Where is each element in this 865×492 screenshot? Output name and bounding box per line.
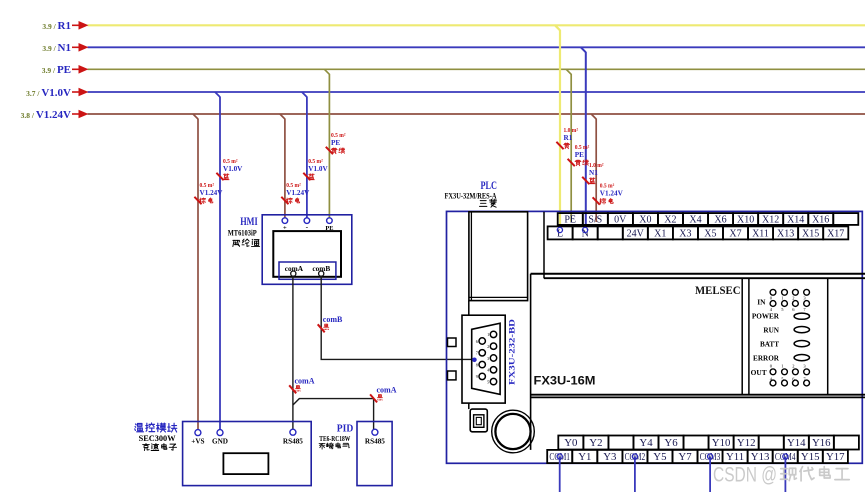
node 3.9/R1 label and source arrow — [42, 20, 88, 32]
PLC main body top edge — [531, 274, 865, 278]
terminal N — [573, 226, 598, 239]
terminal L — [548, 226, 573, 239]
svg-text:POWER: POWER — [752, 313, 780, 321]
svg-text:OUT: OUT — [751, 368, 767, 377]
terminal X11 — [748, 226, 773, 239]
svg-text:X16: X16 — [812, 214, 829, 225]
label comA on wire to PID — [370, 386, 397, 403]
svg-text:GND: GND — [212, 438, 228, 446]
svg-text:+: + — [283, 225, 287, 232]
terminal X4 — [683, 213, 708, 225]
HMI terminal + — [282, 218, 288, 232]
HMI U2 outer box — [262, 215, 352, 284]
node 3.9/N1 label and source arrow — [42, 42, 88, 54]
terminal X7 — [723, 226, 748, 239]
svg-text:Y2: Y2 — [589, 437, 602, 449]
wire R1 bus — [88, 24, 865, 26]
PID vendor — [319, 443, 349, 449]
HMI comB terminal — [319, 271, 324, 276]
LED panel separators — [742, 278, 828, 394]
terminal X3 — [673, 226, 698, 239]
svg-text:X13: X13 — [777, 228, 794, 239]
wire N1 tap to PLC N terminal — [581, 47, 586, 228]
svg-text:comB: comB — [323, 315, 343, 324]
label 0.5mm2 V1.24V brown on +VS drop — [194, 183, 223, 204]
svg-text:2: 2 — [792, 363, 794, 368]
wire PE tap to PLC PE terminal — [566, 69, 571, 222]
terminal COM2 — [622, 450, 647, 463]
wire V1.24V bus — [88, 113, 865, 115]
label 0.5mm2 PE yellow-green on PLC PE drop — [568, 145, 590, 166]
wire from COM2 down — [632, 454, 637, 492]
PLC main body bottom edge — [531, 395, 865, 398]
DB9 pins left column — [476, 338, 486, 380]
svg-text:PE: PE — [575, 151, 584, 159]
terminal Y14 — [784, 436, 809, 450]
terminal Y15 — [798, 450, 823, 463]
svg-text:RUN: RUN — [763, 327, 779, 335]
label comB on wire to PLC — [318, 315, 343, 332]
wire R1 tap to PLC L terminal — [555, 25, 560, 228]
svg-text:FX3U-232-BD: FX3U-232-BD — [507, 319, 517, 385]
svg-text:Y4: Y4 — [639, 437, 653, 449]
svg-text:CSDN @: CSDN @ — [713, 463, 777, 487]
svg-text:Y13: Y13 — [751, 451, 770, 463]
svg-text:Y17: Y17 — [826, 451, 845, 463]
svg-text:PLC: PLC — [481, 180, 498, 192]
terminal blank — [833, 213, 858, 225]
svg-text:X1: X1 — [654, 228, 666, 239]
terminal COM1 — [547, 450, 572, 463]
svg-text:2: 2 — [792, 296, 794, 301]
HMI terminal - — [304, 218, 310, 231]
svg-text:X17: X17 — [827, 228, 844, 239]
terminal X1 — [648, 226, 673, 239]
svg-text:Y0: Y0 — [564, 437, 577, 449]
svg-text:X11: X11 — [752, 228, 769, 239]
svg-text:ERROR: ERROR — [753, 354, 780, 362]
temperature control module box — [183, 422, 312, 486]
svg-text:Y10: Y10 — [712, 437, 731, 449]
terminal X13 — [773, 226, 798, 239]
HMI terminal PE — [325, 218, 333, 232]
svg-text:N1: N1 — [589, 169, 598, 177]
HMI com port section box — [279, 262, 336, 279]
run-stop switch — [470, 409, 487, 432]
label 1.0mm2 R1 yellow on PLC L drop — [556, 128, 578, 149]
terminal COM3 — [698, 450, 723, 463]
HMI vendor weinview — [233, 239, 260, 246]
PLC model FX3U-32M/RES-A — [445, 191, 497, 200]
svg-text:2: 2 — [487, 344, 489, 349]
terminal Y0 — [558, 436, 583, 450]
terminal blank — [598, 226, 623, 239]
wire comB from HMI comB to PLC 232 port — [321, 276, 474, 359]
svg-text:MELSEC: MELSEC — [695, 283, 741, 297]
connector links to body — [468, 301, 470, 410]
label comA on wire to temperature module — [289, 377, 315, 394]
svg-text:X12: X12 — [762, 214, 779, 225]
terminal X14 — [783, 213, 808, 225]
terminal +VS — [191, 430, 204, 446]
terminal Y12 — [734, 436, 759, 450]
HMI model MT6103iP — [228, 229, 257, 238]
terminal blank — [759, 436, 784, 450]
terminal COM4 — [773, 450, 798, 463]
terminal Y2 — [583, 436, 608, 450]
terminal X5 — [698, 226, 723, 239]
PLC vendor Mitsubishi — [480, 199, 497, 207]
wire comA branch to PID RS485 — [293, 399, 374, 430]
terminal Y4 — [633, 436, 658, 450]
svg-text:3.7 / V1.0V: 3.7 / V1.0V — [26, 87, 71, 99]
svg-text:X5: X5 — [704, 228, 716, 239]
svg-text:1: 1 — [487, 332, 489, 337]
temperature module vendor — [143, 443, 177, 450]
wire from COM4 down — [783, 454, 788, 492]
wire from COM3 down — [708, 454, 713, 492]
svg-text:0V: 0V — [614, 214, 627, 225]
svg-text:Y7: Y7 — [678, 451, 692, 463]
svg-text:X4: X4 — [689, 214, 701, 225]
svg-text:SEC300W: SEC300W — [139, 434, 177, 443]
svg-text:TE6-RC18W: TE6-RC18W — [319, 434, 350, 443]
svg-text:V1.24V: V1.24V — [286, 189, 310, 197]
svg-text:IN: IN — [757, 298, 766, 307]
terminal Y10 — [709, 436, 734, 450]
label 0.5mm2 V1.0V blue on GND drop — [216, 159, 243, 180]
terminal PE — [558, 213, 583, 225]
svg-text:9: 9 — [476, 374, 478, 379]
svg-text:3.9 / N1: 3.9 / N1 — [42, 42, 71, 54]
HMI label — [240, 214, 258, 228]
node comB connection on DB9 — [472, 358, 477, 363]
ERROR LED — [753, 354, 809, 362]
temperature module name label — [135, 423, 177, 432]
OUT indicator LEDs — [751, 363, 810, 386]
DB9 mounting tab lower — [448, 371, 457, 380]
terminal circle N — [583, 227, 588, 232]
terminal Y17 — [823, 450, 848, 463]
svg-text:5: 5 — [487, 379, 489, 384]
PLC power supply section rectangle — [469, 212, 528, 301]
terminal X12 — [758, 213, 783, 225]
wire from COM1 down — [557, 454, 562, 492]
temperature module model SEC300W — [139, 434, 177, 443]
svg-text:Y11: Y11 — [726, 451, 744, 463]
watermark CSDN — [713, 463, 849, 487]
svg-text:X6: X6 — [714, 214, 726, 225]
svg-text:S/S: S/S — [588, 214, 602, 225]
terminal circle L — [557, 227, 562, 232]
terminal Y13 — [748, 450, 773, 463]
svg-text:24V: 24V — [627, 228, 645, 239]
svg-text:1: 1 — [781, 296, 783, 301]
terminal X15 — [798, 226, 823, 239]
svg-text:+VS: +VS — [191, 438, 204, 446]
round expansion connector — [492, 410, 535, 453]
svg-text:MT6103iP: MT6103iP — [228, 229, 257, 238]
wire V1.0V bus — [88, 91, 865, 93]
svg-text:RS485: RS485 — [283, 438, 303, 446]
terminal blank — [684, 436, 709, 450]
IN indicator LEDs — [757, 289, 809, 312]
svg-text:Y15: Y15 — [801, 451, 820, 463]
svg-text:X0: X0 — [639, 214, 651, 225]
PLC body step line — [543, 212, 545, 279]
terminal RS485 of temperature module — [283, 429, 303, 445]
HMI comA terminal — [291, 271, 296, 276]
svg-text:7: 7 — [476, 351, 478, 356]
svg-text:V1.0V: V1.0V — [308, 165, 328, 173]
svg-text:8: 8 — [476, 362, 478, 367]
label 0.5mm2 PE yellow-green on HMI PE drop — [326, 133, 346, 154]
svg-text:R1: R1 — [564, 134, 573, 142]
terminal Y1 — [572, 450, 597, 463]
svg-text:V1.0V: V1.0V — [223, 165, 243, 173]
svg-text:3.9 / PE: 3.9 / PE — [42, 64, 71, 76]
svg-text:FX3U-32M/RES-A: FX3U-32M/RES-A — [445, 191, 497, 200]
DB9 pins right column — [487, 331, 497, 385]
svg-text:RS485: RS485 — [365, 438, 385, 446]
terminal X10 — [733, 213, 758, 225]
terminal X0 — [633, 213, 658, 225]
wire V1.24V tap to HMI + terminal — [280, 114, 285, 218]
RUN LED — [763, 327, 809, 335]
terminal Y6 — [659, 436, 684, 450]
label 0.5mm2 V1.24V brown on PLC S/S drop — [593, 184, 624, 205]
BATT LED — [760, 341, 810, 349]
svg-text:comA: comA — [295, 377, 315, 386]
svg-text:PID: PID — [337, 424, 354, 435]
terminal blank — [834, 436, 859, 450]
terminal S/S — [583, 213, 608, 225]
PLC main body left edge — [530, 274, 532, 450]
temperature module display window — [223, 453, 268, 474]
terminal X6 — [708, 213, 733, 225]
svg-text:Y3: Y3 — [603, 451, 616, 463]
wire V1.0V tap to GND of temperature module — [215, 92, 220, 430]
PID module box — [357, 422, 392, 486]
PID model TE6-RC18W — [319, 434, 350, 443]
wire V1.24V tap to PLC S/S terminal — [591, 114, 596, 222]
terminal blank — [608, 436, 633, 450]
svg-text:PE: PE — [564, 214, 576, 225]
svg-text:X7: X7 — [729, 228, 741, 239]
svg-text:Y14: Y14 — [787, 437, 806, 449]
svg-text:3.9 / R1: 3.9 / R1 — [42, 20, 71, 32]
PLC U1 outline — [447, 211, 863, 463]
svg-text:V1.24V: V1.24V — [600, 190, 624, 198]
svg-text:PE: PE — [325, 225, 333, 232]
svg-text:Y6: Y6 — [664, 437, 678, 449]
svg-text:Y1: Y1 — [578, 451, 591, 463]
terminal Y7 — [673, 450, 698, 463]
svg-text:comA: comA — [377, 386, 397, 395]
svg-text:1: 1 — [781, 363, 783, 368]
terminal Y16 — [809, 436, 834, 450]
PLC label — [481, 180, 498, 192]
terminal X17 — [823, 226, 848, 239]
svg-text:X3: X3 — [679, 228, 691, 239]
label 1.0mm2 N1 blue on PLC N drop — [582, 163, 604, 184]
DB9 connector body — [472, 323, 500, 394]
node 3.7/V1.0V label and source arrow — [26, 87, 88, 99]
wire comA from HMI comA down to RS485 of temperature module — [292, 276, 294, 429]
terminal RS485 of PID — [365, 429, 385, 445]
terminal X16 — [808, 213, 833, 225]
svg-text:Y16: Y16 — [812, 437, 831, 449]
node 3.9/PE label and source arrow — [42, 64, 89, 76]
svg-text:X15: X15 — [802, 228, 819, 239]
HMI screen body — [273, 231, 341, 277]
svg-text:Y12: Y12 — [737, 437, 756, 449]
terminal Y11 — [723, 450, 748, 463]
POWER LED — [752, 313, 810, 321]
label 0.5mm2 V1.24V brown on HMI + drop — [281, 183, 310, 204]
wire PE bus — [88, 68, 865, 70]
node 3.8/V1.24V label and source arrow — [21, 109, 89, 121]
svg-text:X14: X14 — [787, 214, 804, 225]
svg-text:BATT: BATT — [760, 341, 779, 349]
terminal Y3 — [597, 450, 622, 463]
wire PE tap to HMI PE terminal — [324, 69, 329, 217]
svg-text:3: 3 — [487, 356, 489, 361]
PID label — [337, 424, 354, 435]
wire V1.0V tap to HMI - terminal — [302, 92, 307, 218]
svg-text:FX3U-16M: FX3U-16M — [534, 376, 596, 388]
svg-text:V1.24V: V1.24V — [200, 189, 224, 197]
svg-text:X10: X10 — [737, 214, 754, 225]
wire V1.24V tap to +VS of temperature module — [193, 114, 198, 430]
svg-text:6: 6 — [476, 339, 478, 344]
svg-text:PE: PE — [331, 139, 340, 147]
svg-text:HMI: HMI — [240, 214, 258, 228]
wire N1 bus — [88, 46, 865, 48]
svg-text:3.8 / V1.24V: 3.8 / V1.24V — [21, 109, 71, 121]
label 0.5mm2 V1.0V blue on HMI - drop — [303, 159, 328, 180]
DB9 mounting tab upper — [448, 338, 457, 347]
terminal Y5 — [647, 450, 672, 463]
terminal 24V — [623, 226, 648, 239]
svg-text:X2: X2 — [664, 214, 676, 225]
terminal X2 — [658, 213, 683, 225]
DB9 connector enclosure — [462, 315, 505, 403]
terminal 0V — [608, 213, 633, 225]
terminal GND — [212, 430, 228, 446]
svg-text:Y5: Y5 — [653, 451, 666, 463]
